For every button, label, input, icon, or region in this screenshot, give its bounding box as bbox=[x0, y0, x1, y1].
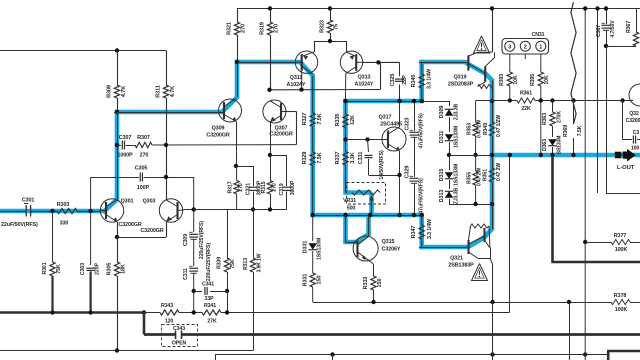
svg-text:7.5K: 7.5K bbox=[317, 113, 323, 124]
svg-text:1SS133M: 1SS133M bbox=[454, 126, 460, 148]
ground bus thick y=312.5 bbox=[0, 311, 145, 314]
diode D309 ZJ3.3B (zener) bbox=[449, 101, 451, 106]
junction R319 top bbox=[268, 6, 272, 10]
resistor R323 75 bbox=[330, 9, 332, 21]
junction emitter node y=175 bbox=[397, 173, 401, 177]
junction bias node on cyan bbox=[490, 202, 494, 206]
svg-text:2SD2083P: 2SD2083P bbox=[448, 82, 474, 88]
capacitor C341 33P bbox=[194, 291, 202, 293]
junction R395 bottom bbox=[539, 98, 543, 102]
svg-text:C3: C3 bbox=[633, 130, 640, 136]
svg-text:1SS133M: 1SS133M bbox=[317, 238, 323, 260]
svg-text:C311: C311 bbox=[183, 268, 189, 280]
junction R345 bottom on cyan rail bbox=[420, 99, 424, 103]
wire black core R349 column bbox=[492, 101, 494, 122]
capacitor C305 100P bbox=[90, 177, 92, 211]
resistor R395 10K bbox=[540, 54, 542, 72]
junction R369 top bbox=[571, 98, 575, 102]
resistor R301 75K bbox=[52, 211, 54, 262]
wire Q313 collector down to R335 node bbox=[345, 90, 347, 102]
wire C331 bottom to emitter node bbox=[369, 175, 400, 177]
svg-text:OPEN: OPEN bbox=[172, 341, 187, 347]
resistor R367 bbox=[636, 9, 638, 33]
junction C311 column bottom bbox=[192, 310, 196, 314]
svg-text:R333: R333 bbox=[363, 277, 369, 290]
svg-text:330: 330 bbox=[60, 221, 69, 227]
junction emitter node Q307 bbox=[268, 153, 272, 157]
wire cyan from R347 down and right into Q321 base bbox=[419, 213, 424, 249]
svg-text:L-OUT: L-OUT bbox=[617, 165, 635, 171]
resistor R329 7.5K on cyan branch bbox=[310, 152, 315, 166]
warning triangle near Q319 bbox=[474, 36, 490, 53]
wire R339 to lower row bbox=[227, 291, 229, 313]
junction R377 node bbox=[583, 240, 587, 244]
svg-text:C323: C323 bbox=[405, 118, 411, 131]
junction C367 top bbox=[604, 6, 608, 10]
resistor R363 270K bbox=[552, 101, 554, 113]
svg-text:0.47 1/2W: 0.47 1/2W bbox=[496, 115, 502, 137]
svg-text:3.3 1/4W: 3.3 1/4W bbox=[427, 219, 433, 239]
junction collector on top rail bbox=[490, 6, 494, 10]
svg-text:R305: R305 bbox=[107, 263, 113, 276]
junction Q317 collector on cyan rail bbox=[397, 99, 401, 103]
capacitor C303 220P bbox=[90, 211, 92, 265]
wire cyan L-OUT output rail bbox=[490, 153, 640, 158]
svg-text:2SC4495: 2SC4495 bbox=[380, 122, 402, 128]
resistor R347 3.3 1/4W on cyan bbox=[419, 225, 424, 239]
svg-text:3.3K: 3.3K bbox=[350, 152, 356, 163]
svg-text:1SS133M: 1SS133M bbox=[454, 164, 460, 186]
capacitor C301 22uF/50V(RFS) bbox=[25, 205, 27, 217]
svg-text:R301: R301 bbox=[42, 262, 48, 274]
svg-text:1000P: 1000P bbox=[117, 153, 133, 159]
svg-text:120: 120 bbox=[165, 319, 174, 325]
junction C331 tap on base wire bbox=[365, 137, 369, 141]
resistor R351 0.47 2W on cyan bbox=[489, 168, 494, 182]
wire black core of cyan vertical x=117 bbox=[117, 112, 119, 199]
svg-text:R395: R395 bbox=[530, 74, 536, 86]
junction emitter tie bbox=[115, 235, 119, 239]
svg-text:Q309: Q309 bbox=[212, 126, 225, 132]
svg-text:R317: R317 bbox=[228, 181, 234, 193]
resistor R343 120 bbox=[144, 312, 160, 314]
svg-text:R319: R319 bbox=[260, 22, 266, 35]
svg-text:C329: C329 bbox=[405, 166, 411, 179]
junction VR31 wiper / Q315 collector bbox=[368, 213, 372, 217]
resistor R337 3.3K on cyan branch bbox=[343, 152, 348, 166]
resistor R331 150 bbox=[310, 273, 315, 287]
wire bias row y=100.5 bbox=[476, 100, 517, 102]
junction C321 bottom / R313 top bbox=[251, 207, 255, 211]
transistor Q309 C3200GR bbox=[219, 99, 242, 122]
svg-text:A1024Y: A1024Y bbox=[287, 82, 306, 88]
junction Q321 bottom bbox=[490, 300, 494, 304]
junction C367 bottom bbox=[604, 44, 608, 48]
svg-text:R323: R323 bbox=[320, 20, 326, 33]
wire CN31 pin2 stub bbox=[524, 54, 526, 59]
svg-text:R329: R329 bbox=[302, 152, 308, 165]
diode D315 1SS133M bbox=[449, 155, 451, 170]
junction R305 bottom bbox=[115, 348, 119, 352]
svg-text:D315: D315 bbox=[439, 169, 445, 182]
svg-text:270: 270 bbox=[238, 183, 244, 192]
thick sense line from D363 down bbox=[551, 157, 554, 262]
junction C325 branch node bbox=[376, 60, 380, 64]
svg-text:R345: R345 bbox=[411, 75, 417, 88]
svg-text:4.7/50V: 4.7/50V bbox=[610, 20, 616, 38]
svg-text:R347: R347 bbox=[411, 226, 417, 239]
svg-text:47uF/50V(RFS): 47uF/50V(RFS) bbox=[419, 178, 425, 214]
svg-text:C303: C303 bbox=[80, 263, 86, 275]
resistor R353 0.47 2W bbox=[475, 101, 477, 123]
junction x=597.5 top rail bbox=[595, 6, 599, 10]
wire Q307 emitter column bbox=[270, 123, 272, 156]
wire cyan highlighted signal path: input line through Q301 up to node at R309 bbox=[0, 209, 104, 214]
junction Q315 base branch bbox=[343, 213, 347, 217]
junction R395 column on output rail bbox=[539, 153, 543, 157]
junction R393 bottom bbox=[508, 98, 512, 102]
svg-text:R343: R343 bbox=[161, 303, 173, 309]
svg-text:22P: 22P bbox=[402, 75, 408, 85]
svg-text:R337: R337 bbox=[335, 152, 341, 165]
wire black core cyan vertical x=237 bbox=[237, 62, 239, 97]
capacitor C323 47uF/50V(RFS) bbox=[414, 101, 416, 131]
wire black core R345 column bbox=[421, 62, 423, 74]
svg-text:ZJ3.3B: ZJ3.3B bbox=[454, 187, 460, 204]
junction C329 bottom bbox=[412, 213, 416, 217]
wire cyan through Q321 up to emitter resistor R351 bbox=[467, 237, 486, 248]
svg-text:D313: D313 bbox=[439, 190, 445, 203]
svg-text:C321: C321 bbox=[246, 183, 252, 195]
junction stub 3 bbox=[583, 352, 587, 356]
svg-text:D309: D309 bbox=[439, 106, 445, 119]
svg-text:R363: R363 bbox=[542, 113, 548, 125]
svg-text:7.5K: 7.5K bbox=[577, 125, 583, 136]
svg-text:22K: 22K bbox=[521, 106, 531, 112]
svg-text:2: 2 bbox=[524, 45, 527, 51]
capacitor C309 220uF/25V(RFS) electrolytic bbox=[193, 210, 195, 233]
svg-text:R351: R351 bbox=[483, 169, 489, 181]
junction at R309 top bbox=[115, 48, 119, 52]
resistor R313 3.9K 1W bbox=[253, 210, 255, 259]
junction feedback line on output rail bbox=[508, 153, 512, 157]
svg-text:R341: R341 bbox=[204, 303, 216, 309]
junction diode column on output rail bbox=[447, 153, 451, 157]
svg-text:R311: R311 bbox=[156, 85, 162, 97]
svg-text:Q313: Q313 bbox=[358, 75, 371, 81]
wire black core cyan x=492 bias segment bbox=[492, 204, 494, 229]
junction D363 on output rail bbox=[550, 153, 554, 157]
wire black core Q321 base cyan bbox=[419, 247, 467, 249]
svg-text:33P: 33P bbox=[205, 296, 215, 302]
diode D313 ZJ3.3B (zener) bbox=[449, 180, 451, 189]
wire black core cyan y=215 rail bbox=[311, 215, 422, 217]
wire bottom rail y=350.5 bbox=[0, 350, 253, 352]
wire R378 branch down bbox=[569, 302, 571, 360]
svg-text:0.47 2W: 0.47 2W bbox=[477, 120, 483, 138]
junction R349 top bbox=[490, 99, 494, 103]
svg-text:270K: 270K bbox=[557, 111, 563, 123]
svg-text:R393: R393 bbox=[499, 74, 505, 86]
transistor Q307 C3200GR (mirrored) bbox=[263, 100, 286, 123]
wire thick bus step down bbox=[143, 311, 146, 334]
junction C309 column top bbox=[192, 207, 196, 211]
svg-text:Q303: Q303 bbox=[143, 199, 156, 205]
svg-text:220uF/25V(RFS): 220uF/25V(RFS) bbox=[206, 243, 212, 281]
svg-text:C331: C331 bbox=[358, 152, 364, 165]
svg-text:SS133M: SS133M bbox=[557, 136, 563, 155]
junction C311 bottom bbox=[192, 289, 196, 293]
capacitor C325 22P bbox=[399, 62, 401, 76]
svg-text:47uF/50V(RFS): 47uF/50V(RFS) bbox=[419, 113, 425, 149]
svg-text:Q311: Q311 bbox=[290, 75, 303, 81]
wire C367 to R367 bbox=[606, 46, 636, 48]
svg-text:Q321: Q321 bbox=[450, 256, 463, 262]
svg-text:3.9K 1W: 3.9K 1W bbox=[257, 253, 263, 272]
junction stub 2 bbox=[490, 352, 494, 356]
resistor R317 270 bbox=[236, 166, 238, 181]
svg-text:500: 500 bbox=[347, 206, 356, 212]
junction Q303 collector on C305 line bbox=[164, 175, 168, 179]
resistor R311 4.7K bbox=[166, 51, 168, 86]
svg-text:C3200GR: C3200GR bbox=[206, 133, 229, 139]
svg-text:R335: R335 bbox=[335, 114, 341, 127]
potentiometer VR31 500 (dashed box) bbox=[347, 183, 386, 205]
junction Q32x base node bbox=[620, 98, 624, 102]
svg-text:12K: 12K bbox=[350, 115, 356, 125]
svg-text:C309: C309 bbox=[183, 234, 189, 246]
wire cyan down R349 into L-OUT rail bbox=[490, 79, 495, 206]
junction output node bbox=[490, 153, 494, 157]
resistor R315 270 bbox=[270, 155, 272, 181]
transistor Q315 C3206Y bbox=[353, 236, 378, 261]
svg-text:Q32: Q32 bbox=[629, 111, 639, 117]
wire black core Q315 base hook bbox=[345, 215, 347, 242]
wire black core R351 column bbox=[492, 155, 494, 168]
junction R315 bottom bbox=[268, 207, 272, 211]
junction R355 bottom bbox=[473, 202, 477, 206]
wire base bias rail y=89.5 bbox=[270, 89, 381, 91]
thick sense line right y=262 bbox=[551, 261, 640, 264]
svg-text:100: 100 bbox=[631, 146, 640, 152]
wire top-left rail bbox=[0, 50, 166, 52]
svg-text:R367: R367 bbox=[626, 21, 632, 33]
wire Q313 emitter to C325 node bbox=[362, 61, 400, 63]
svg-text:VR31: VR31 bbox=[343, 198, 356, 204]
wire black core R347 column bbox=[421, 215, 423, 225]
resistor R333 150 bbox=[369, 260, 374, 264]
svg-text:Q301: Q301 bbox=[121, 199, 134, 205]
svg-text:C319: C319 bbox=[279, 183, 285, 195]
resistor R393 10K bbox=[509, 54, 511, 72]
svg-text:ZJ3.3B: ZJ3.3B bbox=[454, 103, 460, 120]
svg-text:D363: D363 bbox=[542, 139, 548, 151]
junction R311 bottom on R307 rail bbox=[164, 143, 168, 147]
junction R309 bottom on cyan path bbox=[115, 110, 119, 114]
wire diode column to bias node bbox=[449, 204, 492, 206]
svg-text:1: 1 bbox=[539, 45, 542, 51]
wire main input black core y=211 bbox=[0, 211, 26, 213]
junction C323 top bbox=[412, 99, 416, 103]
connector CN31 bbox=[502, 39, 549, 55]
wire black core of cyan horizontal y=112 bbox=[114, 112, 219, 114]
wire R301 to ground bus (thick) bbox=[51, 276, 53, 313]
diode D311 1SS133M bbox=[445, 134, 453, 140]
svg-text:270: 270 bbox=[140, 153, 149, 159]
diode D363 SS133M bbox=[548, 139, 556, 145]
wire R323 to Q311/Q313 collectors bbox=[314, 41, 346, 43]
svg-text:R369: R369 bbox=[563, 125, 569, 137]
transistor Q301 C3200GR bbox=[100, 199, 123, 222]
wire C303 to ground bus (thick) bbox=[89, 271, 91, 312]
svg-text:100K: 100K bbox=[615, 247, 628, 253]
resistor R349 0.47 1/2W on cyan bbox=[489, 122, 494, 136]
warning triangle near Q321 bbox=[472, 264, 488, 281]
svg-text:C301: C301 bbox=[22, 198, 35, 204]
junction R353 bottom on output rail bbox=[473, 153, 477, 157]
svg-text:0.47 2W: 0.47 2W bbox=[496, 163, 502, 181]
capacitor C331 10/50V(RFS) bbox=[368, 140, 369, 153]
capacitor C329 47uF/50V(RFS) bbox=[410, 177, 419, 179]
svg-text:C305: C305 bbox=[135, 166, 148, 172]
svg-text:3: 3 bbox=[508, 45, 511, 51]
resistor R345 3.3 1/4W on cyan bbox=[419, 74, 424, 88]
svg-text:3900P: 3900P bbox=[290, 180, 296, 195]
svg-text:22uF/50V(RFS): 22uF/50V(RFS) bbox=[1, 222, 38, 228]
svg-text:C343: C343 bbox=[173, 326, 185, 332]
svg-text:75K: 75K bbox=[230, 259, 236, 269]
wire cyan path R335/R337 branch down through VR31 to lower rail bbox=[346, 99, 372, 193]
junction Q309 collector / R321 node on cyan bbox=[235, 60, 239, 64]
wire black core cyan y=62 row bbox=[237, 62, 296, 64]
wire black core x=345.5 cyan bbox=[345, 101, 347, 114]
svg-text:R355: R355 bbox=[467, 172, 473, 184]
resistor R377 100K bbox=[585, 242, 611, 244]
svg-text:A1024Y: A1024Y bbox=[355, 82, 374, 88]
svg-text:C3200GR: C3200GR bbox=[118, 222, 141, 228]
svg-text:C3206Y: C3206Y bbox=[382, 247, 401, 253]
junction R301 tap on input line bbox=[50, 209, 54, 213]
svg-text:270: 270 bbox=[272, 183, 278, 192]
svg-text:C367: C367 bbox=[596, 25, 602, 37]
svg-text:D331: D331 bbox=[303, 241, 309, 254]
wire long vertical x=597.5 bbox=[597, 9, 599, 194]
junction R339 bottom bbox=[225, 289, 229, 293]
junction R363 top bbox=[550, 98, 554, 102]
wire black core cyan output rail y=155 bbox=[449, 155, 492, 157]
wire bottom rail y=354.5 bbox=[215, 354, 607, 356]
wire long vertical x=584.5 bbox=[584, 9, 586, 355]
svg-text:150: 150 bbox=[317, 276, 323, 285]
junction Q317 base tap bbox=[343, 137, 347, 141]
resistor R307 270 bbox=[135, 142, 152, 147]
junction stub 1 bbox=[330, 352, 334, 356]
wire branch down to base rail bbox=[380, 62, 382, 89]
svg-text:18K: 18K bbox=[121, 264, 127, 274]
wire cyan lower rail y=215 to R347 bbox=[310, 213, 424, 218]
resistor R339 75K bbox=[227, 210, 229, 259]
svg-text:CN31: CN31 bbox=[532, 32, 545, 38]
svg-text:100K: 100K bbox=[615, 307, 628, 313]
capacitor C343 OPEN (dashed box) bbox=[162, 325, 198, 347]
transistor Q321 2SB1383P (darlington) bbox=[467, 240, 469, 254]
wire feedback row y=302 bbox=[313, 302, 611, 304]
resistor R355 0.47 2W bbox=[475, 155, 477, 171]
transistor Q303 C3200GR (mirrored) bbox=[159, 199, 182, 222]
svg-text:R378: R378 bbox=[614, 293, 627, 299]
svg-text:C341: C341 bbox=[202, 282, 214, 288]
svg-text:D311: D311 bbox=[439, 131, 445, 143]
transistor Q311 A1024Y (PNP) bbox=[295, 51, 317, 73]
svg-text:R315: R315 bbox=[261, 181, 267, 193]
svg-text:100P: 100P bbox=[137, 185, 150, 191]
wire C311 to lower row bbox=[193, 291, 195, 313]
svg-text:R377: R377 bbox=[614, 233, 627, 239]
svg-text:10K: 10K bbox=[513, 75, 519, 85]
resistor R369 7.5K bbox=[573, 101, 575, 125]
svg-text:27K: 27K bbox=[207, 319, 217, 325]
svg-text:3.3 1/4W: 3.3 1/4W bbox=[427, 69, 433, 89]
svg-text:C307: C307 bbox=[119, 135, 132, 141]
wire cyan branch into Q315 base and collector up bbox=[346, 215, 358, 242]
diode D331 1SS133M bbox=[312, 215, 314, 241]
svg-text:Q315: Q315 bbox=[382, 239, 395, 245]
svg-text:R327: R327 bbox=[302, 113, 308, 126]
junction cyan corner R335 rail bbox=[343, 99, 347, 103]
junction emitter node bbox=[234, 164, 238, 168]
resistor R341 27K bbox=[202, 310, 221, 315]
junction Q311 base on rail bbox=[299, 87, 303, 91]
junction R378 branch bbox=[567, 300, 571, 304]
svg-text:R331: R331 bbox=[303, 274, 309, 287]
junction bus corner bbox=[50, 310, 54, 314]
power bus thick y=334.5 bbox=[144, 333, 176, 336]
capacitor C367 4.7/50V bbox=[606, 9, 608, 25]
svg-text:Q319: Q319 bbox=[454, 75, 467, 81]
resistor R319 270 bbox=[270, 9, 272, 23]
resistor R327 7.5K on cyan branch bbox=[310, 113, 315, 127]
thick corner bottom-right block bbox=[607, 350, 640, 353]
junction R347 top corner bbox=[420, 213, 424, 217]
svg-text:R309: R309 bbox=[107, 85, 113, 98]
svg-text:270: 270 bbox=[241, 24, 247, 33]
svg-text:75: 75 bbox=[334, 24, 340, 30]
wire black core cyan y=101 rail bbox=[344, 101, 449, 103]
capacitor C3xx 1000P (clipped) bbox=[622, 101, 624, 140]
transistor Q319 2SD2083P (darlington) bbox=[467, 55, 469, 70]
svg-text:C3200GR: C3200GR bbox=[140, 228, 163, 234]
wire Q319 collector to top rail bbox=[492, 9, 494, 53]
svg-text:4.7K: 4.7K bbox=[170, 86, 176, 97]
wire cyan path from R309 node right to Q309 and up to Q311 emitter row bbox=[115, 110, 222, 115]
svg-text:10K: 10K bbox=[544, 75, 550, 85]
L-OUT box outline bbox=[606, 193, 640, 195]
svg-text:R313: R313 bbox=[243, 258, 249, 270]
wire top rail y=8.5 bbox=[237, 8, 640, 10]
wire base rail y=209.5 Q303 bbox=[184, 209, 287, 211]
resistor R309 4.7K bbox=[117, 51, 119, 86]
junction x=584.5 top rail bbox=[583, 6, 587, 10]
svg-text:75K: 75K bbox=[56, 264, 62, 274]
junction C303 tap on input line bbox=[88, 209, 92, 213]
svg-text:270: 270 bbox=[274, 24, 280, 33]
wire cyan upper rail y=101 from R335 node to R345 bbox=[343, 99, 424, 104]
wire cyan path through Q311 down the R327/R329 branch to lower rail bbox=[299, 61, 314, 77]
wire cyan through Q319 emitter down to output rail bbox=[466, 63, 487, 75]
wire cyan up through R345 to Q319 base bbox=[419, 60, 424, 103]
wire L-OUT box vertical bbox=[606, 46, 608, 193]
svg-text:C3200GR: C3200GR bbox=[269, 132, 292, 138]
